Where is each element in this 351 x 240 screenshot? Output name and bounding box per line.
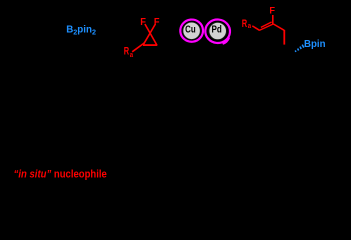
svg-text:R: R	[242, 17, 248, 30]
bond F(left) to ring right vertex	[145, 24, 157, 45]
svg-text:B2pin2: B2pin2	[66, 24, 96, 36]
svg-text:F: F	[140, 17, 146, 29]
svg-text:Pd: Pd	[211, 24, 221, 35]
Pd catalyst magenta ring	[204, 18, 231, 44]
Pd catalyst gray disc	[209, 22, 226, 39]
Pd ring stroke tail	[224, 38, 229, 43]
svg-text:a: a	[130, 51, 134, 59]
double bond main line	[259, 24, 273, 31]
cyclopropane ring base	[143, 44, 157, 46]
svg-text:“in situ” nucleophile: “in situ” nucleophile	[14, 169, 108, 181]
svg-text:R: R	[124, 44, 130, 57]
Cu catalyst gray disc	[183, 22, 200, 39]
bond F(right) to ring left vertex	[143, 24, 155, 45]
bond Ra to vinyl CH	[252, 26, 259, 30]
bond C(F) to CH2	[273, 24, 284, 30]
bond CH2 down to CH	[283, 30, 285, 45]
double bond inner line	[261, 22, 272, 27]
hashed wedge bond to Bpin	[295, 45, 304, 52]
svg-text:Cu: Cu	[185, 24, 196, 35]
svg-text:a: a	[248, 22, 252, 30]
bond C to vinyl F	[272, 15, 274, 24]
bond ring to Ra	[132, 43, 144, 52]
svg-text:F: F	[269, 6, 275, 16]
svg-text:Bpin: Bpin	[304, 39, 326, 50]
Cu catalyst magenta ring	[179, 18, 204, 42]
